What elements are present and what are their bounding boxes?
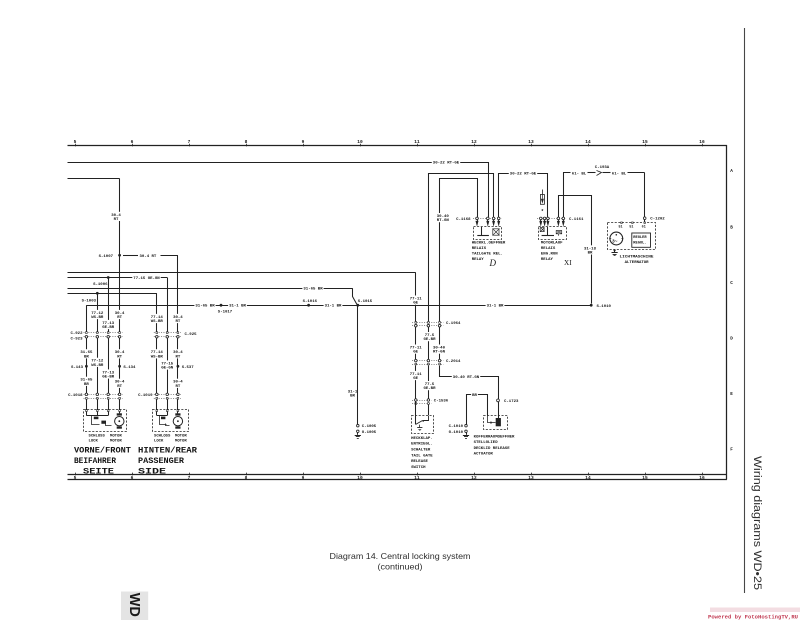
wire label 77-15 GE-GN (132, 275, 160, 280)
relay D (component box) (474, 227, 502, 240)
svg-text:14: 14 (585, 475, 591, 481)
wire 31-65 BR vertical, column A1 (86, 305, 88, 332)
lock motor front passenger (component box) (84, 410, 127, 432)
splice S-1016 (307, 304, 310, 307)
svg-text:SEITE: SEITE (83, 466, 114, 476)
svg-text:WS-BR: WS-BR (151, 320, 164, 324)
wire 77-11 GE vertical to C-1964 (415, 273, 417, 322)
wire 31-65 BR feed from left edge (68, 288, 353, 290)
relay XI coil (547, 227, 549, 236)
svg-text:WS-BR: WS-BR (151, 355, 164, 359)
svg-text:REGUL.: REGUL. (633, 242, 646, 246)
svg-text:VORNE/FRONT: VORNE/FRONT (74, 445, 131, 455)
svg-text:WD: WD (126, 593, 142, 617)
svg-text:BR: BR (472, 394, 477, 398)
svg-text:RT: RT (114, 218, 119, 222)
svg-text:WS-BR: WS-BR (91, 316, 104, 320)
svg-text:51: 51 (629, 225, 633, 229)
wire label 31-1 BR (324, 303, 343, 308)
connector C-2014 (412, 360, 444, 362)
relay XI contact 1 (540, 228, 544, 232)
svg-text:MOTOR: MOTOR (175, 434, 187, 438)
svg-text:STELLGLIED: STELLGLIED (474, 441, 499, 445)
svg-text:BEIFAHRER: BEIFAHRER (74, 456, 117, 466)
svg-text:Wiring diagrams WD•25: Wiring diagrams WD•25 (751, 456, 763, 590)
wire 30-4 RT vertical, column B3 (177, 255, 179, 332)
column wires C-2014 to C-1536 (415, 365, 417, 399)
switch contacts (415, 415, 417, 424)
svg-text:SIDE: SIDE (138, 466, 166, 476)
svg-text:ACTUATOR: ACTUATOR (474, 453, 494, 457)
svg-text:HECKKLAP.: HECKKLAP. (411, 437, 433, 441)
relay D contact (493, 229, 499, 235)
svg-text:GE-GN: GE-GN (161, 367, 174, 371)
wire label 30-22 RT-GE (432, 160, 460, 165)
svg-text:S-1010: S-1010 (597, 305, 612, 309)
wire label 31-1 BR (486, 303, 505, 308)
connector C-1010 (465, 424, 468, 427)
svg-text:GE-BR: GE-BR (102, 326, 115, 330)
svg-text:Diagram 14. Central locking sy: Diagram 14. Central locking system (330, 552, 471, 561)
svg-text:E: E (730, 392, 733, 397)
wire 30-4 RT vertical, column A4 (119, 179, 121, 332)
splice S-1017 (220, 304, 223, 307)
alternator ground (614, 249, 616, 251)
wire 30-22 RT-GE relay D pin 4 to relay XI (499, 174, 548, 218)
svg-text:G-1010: G-1010 (449, 431, 464, 435)
splice S-1006 (107, 276, 110, 279)
WD tab bottom left (121, 592, 148, 620)
connector C-922 / C-923 (84, 332, 123, 334)
connector C-1018 (84, 394, 123, 396)
svg-text:SCHLOSS: SCHLOSS (154, 434, 171, 438)
svg-text:REGLER: REGLER (633, 236, 647, 240)
svg-text:31-1 BR: 31-1 BR (229, 305, 246, 309)
splice S-537 (177, 365, 180, 368)
svg-text:30-22 RT-GE: 30-22 RT-GE (510, 173, 537, 177)
motor M rear passenger (177, 411, 179, 413)
motor M front passenger (119, 411, 121, 413)
svg-text:C-193A: C-193A (595, 166, 610, 170)
splice S-143 (85, 365, 88, 368)
svg-text:Powered by FotoHostingTV,RU: Powered by FotoHostingTV,RU (708, 615, 798, 620)
ground G-1010 (465, 430, 468, 433)
column wires C-925 to C-1019 rear motor (156, 338, 158, 393)
svg-text:30-22 RT-GE: 30-22 RT-GE (433, 162, 460, 166)
wire 77-15 GE-GN feed from left edge (68, 277, 168, 279)
svg-text:31-1 BR: 31-1 BR (487, 305, 504, 309)
page divider line right (744, 28, 746, 593)
svg-text:31-65 BR: 31-65 BR (303, 288, 323, 292)
svg-text:S-1016: S-1016 (303, 300, 318, 304)
svg-text:61: 61 (642, 225, 646, 229)
wire 77-12/77-14 WS-BR feed from left edge (68, 293, 157, 295)
connector C-1168 (473, 218, 502, 220)
svg-text:12: 12 (471, 475, 477, 481)
wire label 61- BL (571, 170, 587, 175)
svg-text:PASSENGER: PASSENGER (138, 456, 185, 466)
wire label 31-1 BR vertical (347, 388, 359, 397)
wire labels above connector C-922 (90, 310, 104, 319)
wire label 31-18 BR (583, 245, 597, 254)
connector C-1723 (497, 399, 500, 402)
svg-text:C-1723: C-1723 (504, 400, 519, 404)
column wires C-1964 to C-2014 (415, 327, 417, 359)
connector C-925 (154, 332, 181, 334)
svg-text:BR: BR (84, 355, 89, 359)
svg-text:DECKLID RELEASE: DECKLID RELEASE (474, 447, 511, 451)
splice S-1003 (96, 292, 99, 295)
svg-text:RT: RT (117, 316, 122, 320)
wire 61-BL: relay XI pin to alternator (564, 173, 571, 218)
svg-text:8: 8 (245, 475, 248, 481)
wire label 30-40 RT-GN (436, 213, 450, 222)
watermark Powered by FotoHostingTV.RU (710, 608, 800, 613)
wire riser to relay D pin 2 (488, 162, 490, 217)
splice S-134 (118, 365, 121, 368)
svg-text:RT: RT (175, 385, 180, 389)
in-line connector C-193A (597, 171, 602, 176)
svg-text:RELAIS: RELAIS (472, 247, 487, 251)
wire labels above connector C-925 (150, 314, 164, 323)
svg-text:RT: RT (117, 385, 122, 389)
svg-text:MOTOR: MOTOR (110, 434, 122, 438)
wire 77-14 WS-BR vertical, column B1 (156, 293, 158, 332)
svg-text:S-1017: S-1017 (218, 310, 233, 314)
svg-text:MOTOR: MOTOR (110, 440, 122, 444)
wire 30-4 RT feed from left edge (68, 178, 120, 180)
svg-text:C-1161: C-1161 (569, 218, 584, 222)
svg-text:HINTEN/REAR: HINTEN/REAR (138, 445, 198, 455)
svg-text:C-925: C-925 (185, 333, 198, 337)
wire 77-12 WS-BR vertical, column A2 (97, 293, 99, 332)
svg-text:RELAY: RELAY (541, 258, 554, 262)
svg-text:D: D (730, 337, 733, 342)
wire label 31-65 BR (194, 303, 215, 308)
frame top border with grid ticks (68, 145, 727, 147)
svg-text:C-923: C-923 (70, 337, 83, 341)
relay D pin arrows (476, 221, 479, 227)
svg-text:LOCK: LOCK (154, 440, 164, 444)
svg-text:10: 10 (357, 475, 363, 481)
wire BR: actuator to ground G-1010 (467, 395, 488, 425)
svg-text:D: D (489, 258, 497, 268)
svg-text:C-1010: C-1010 (449, 425, 464, 429)
wire 77-5 GE-BR loop: relay D pin 3 to tailgate column (429, 174, 494, 322)
svg-text:RELAIS: RELAIS (541, 247, 556, 251)
svg-text:F: F (730, 448, 733, 453)
svg-text:C-1005: C-1005 (362, 425, 377, 429)
svg-text:11: 11 (414, 475, 420, 481)
wire 30-40 RT-GN loop: relay D pin 1 to tailgate column (440, 179, 478, 322)
svg-text:30-4 RT: 30-4 RT (140, 255, 157, 259)
svg-text:HECKKL.OEFFNER: HECKKL.OEFFNER (472, 242, 506, 246)
connector C-1005 (357, 424, 360, 427)
svg-text:TAIL GATE: TAIL GATE (411, 454, 433, 458)
svg-text:31-65 BR: 31-65 BR (195, 305, 215, 309)
svg-text:GE: GE (413, 302, 418, 306)
svg-text:5: 5 (74, 475, 77, 481)
wire 31-1 BR drop to ground G-1005 (357, 305, 359, 424)
svg-text:C-1964: C-1964 (446, 322, 461, 326)
svg-text:S-1007: S-1007 (99, 255, 114, 259)
wire 31-65/31-1 BR ground bus (86, 305, 591, 307)
svg-text:15: 15 (642, 475, 648, 481)
svg-text:16: 16 (699, 475, 705, 481)
splice S-1015 (356, 304, 359, 307)
svg-text:GE-BR: GE-BR (423, 387, 436, 391)
svg-text:GE: GE (413, 377, 418, 381)
svg-text:BR: BR (588, 251, 593, 255)
tailgate release switch (component box) (412, 416, 434, 434)
svg-text:XI: XI (564, 259, 572, 267)
svg-text:LICHTMASCHINE: LICHTMASCHINE (620, 255, 655, 259)
svg-text:RELEASE: RELEASE (411, 460, 428, 464)
svg-text:GE-BR: GE-BR (423, 338, 436, 342)
svg-text:C-1019: C-1019 (138, 394, 153, 398)
frame bottom border (double line) (68, 474, 727, 476)
svg-text:BR: BR (84, 383, 89, 387)
svg-text:RT: RT (175, 355, 180, 359)
connector C-1536 (412, 400, 432, 402)
svg-text:C-1202: C-1202 (650, 218, 665, 222)
connector C-1161 (537, 218, 566, 220)
splice S-1007 (118, 254, 121, 257)
regulator box REGLER REGUL. (632, 233, 651, 247)
wire 61-BL drop to C-1202 (644, 173, 646, 217)
svg-text:LOCK: LOCK (89, 440, 99, 444)
svg-text:MOTORLAUF: MOTORLAUF (541, 242, 563, 246)
splice S-1010 (590, 304, 593, 307)
svg-text:7: 7 (188, 475, 191, 481)
svg-text:77-15 GE-GN: 77-15 GE-GN (133, 277, 160, 281)
relay XI contact 2 (556, 231, 562, 234)
wire 31-65 BR diagonal into splice S-1015 (353, 289, 358, 306)
alternator (component box) (608, 223, 656, 250)
wire 77-15 GE-GN vertical, column B2 (167, 278, 169, 332)
svg-text:C: C (730, 281, 733, 286)
svg-text:TAILGATE REL.: TAILGATE REL. (472, 253, 503, 257)
svg-text:S-1006: S-1006 (93, 283, 108, 287)
relay XI pin arrows (539, 221, 542, 227)
fuse link above relay XI (542, 190, 544, 195)
wire label 77-11 GE (409, 296, 423, 305)
wire label 30-40 RT-GN (452, 374, 480, 379)
svg-text:C-2014: C-2014 (446, 360, 461, 364)
svg-text:61- BL: 61- BL (612, 172, 627, 176)
lock switch linkage symbol (86, 411, 88, 415)
svg-text:MOTOR: MOTOR (175, 440, 187, 444)
wire 30-22 RT-GE power bus from left edge to relay D pin (68, 162, 489, 164)
svg-text:A: A (730, 169, 733, 174)
lock switch linkage symbol rear (156, 411, 158, 415)
wire 77-13 GE-BR vertical, column A3 (108, 278, 110, 332)
relay D coil (481, 227, 483, 236)
svg-text:S-1015: S-1015 (358, 300, 373, 304)
svg-text:C-1536: C-1536 (434, 400, 449, 404)
relay XI (component box) (539, 227, 567, 240)
svg-text:61- BL: 61- BL (572, 172, 587, 176)
svg-text:S-537: S-537 (182, 366, 195, 370)
wire 77-11 GE feed from left edge (68, 272, 416, 274)
svg-text:6: 6 (131, 475, 134, 481)
svg-text:RT: RT (175, 320, 180, 324)
wire 30-4 RT branch to rear motor (123, 255, 138, 257)
wire label 30-22 RT-GE (509, 171, 537, 176)
lock motor rear passenger (component box) (153, 410, 189, 432)
svg-text:RT-GN: RT-GN (433, 351, 446, 355)
svg-text:RT: RT (117, 355, 122, 359)
wire label 31-1 BR (228, 303, 247, 308)
svg-text:S-143: S-143 (71, 366, 84, 370)
wire label BR (471, 392, 478, 397)
wire label 31-65 BR (302, 286, 323, 291)
svg-text:30-40 RT-GN: 30-40 RT-GN (453, 376, 480, 380)
svg-text:KOFFERRAUMOEFFNER: KOFFERRAUMOEFFNER (474, 436, 515, 440)
connector C-1019 (154, 394, 181, 396)
svg-text:(continued): (continued) (378, 563, 423, 572)
svg-text:ENG.RUN: ENG.RUN (541, 253, 558, 257)
svg-text:3~: 3~ (612, 239, 618, 245)
column wires C-923 to C-1018 front motor (86, 338, 88, 393)
svg-text:ENTRIEGL.: ENTRIEGL. (411, 443, 433, 447)
svg-text:C-1018: C-1018 (68, 394, 83, 398)
wire label 61- BL (611, 170, 627, 175)
svg-text:S-1003: S-1003 (82, 299, 97, 303)
svg-text:RELAY: RELAY (472, 258, 485, 262)
connector C-1202 (643, 217, 646, 220)
svg-text:G-1005: G-1005 (362, 431, 377, 435)
svg-text:ALTERNATOR: ALTERNATOR (625, 261, 650, 265)
svg-text:C-922: C-922 (70, 332, 83, 336)
connector C-1964 (412, 322, 444, 324)
deck lid release actuator (component box) (484, 416, 508, 430)
wire 31-18 BR: relay XI pin to splice S-1010 (559, 196, 592, 304)
svg-text:31-1 BR: 31-1 BR (325, 305, 342, 309)
svg-text:BR: BR (350, 394, 355, 398)
svg-text:C-1168: C-1168 (456, 218, 471, 222)
svg-text:51: 51 (618, 225, 622, 229)
ground G-1005 (357, 430, 360, 433)
svg-text:GE-BR: GE-BR (102, 376, 115, 380)
svg-text:B: B (730, 226, 733, 231)
svg-text:13: 13 (528, 475, 534, 481)
frame right border (726, 145, 728, 479)
svg-text:WS-BR: WS-BR (91, 364, 104, 368)
svg-text:S-134: S-134 (123, 366, 136, 370)
svg-text:*: * (541, 209, 544, 215)
alternator symbol (610, 232, 623, 245)
wire label 30-4 RT (110, 212, 122, 221)
svg-text:SWITCH: SWITCH (411, 466, 426, 470)
svg-text:RT-GN: RT-GN (437, 219, 450, 223)
svg-text:GE: GE (413, 351, 418, 355)
svg-text:9: 9 (302, 475, 305, 481)
svg-text:SCHALTER: SCHALTER (411, 449, 431, 453)
svg-text:SCHLOSS: SCHLOSS (89, 434, 106, 438)
wire 30-40 RT-GN to deck lid actuator (440, 366, 499, 400)
